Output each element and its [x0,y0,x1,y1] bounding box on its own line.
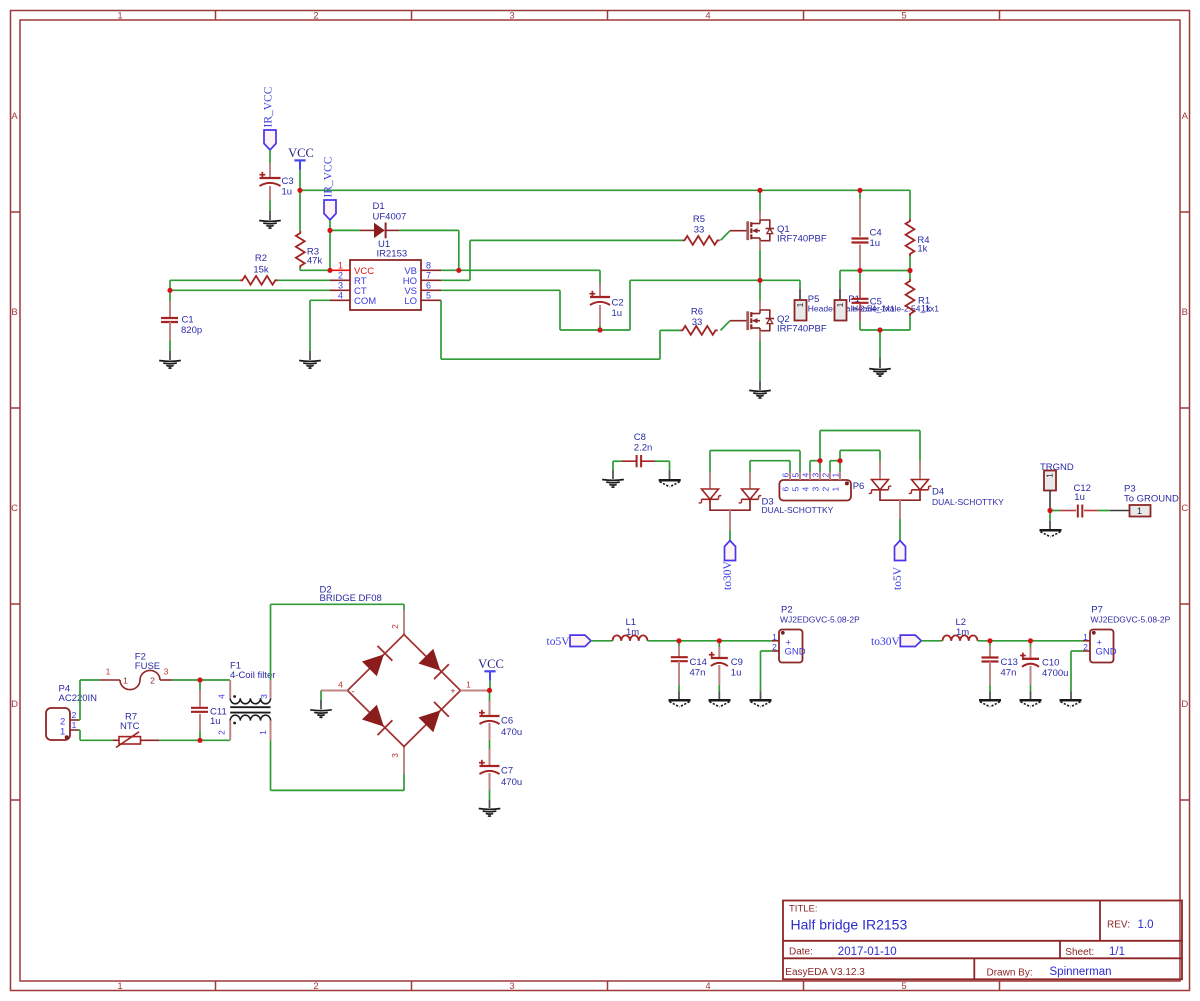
svg-text:1u: 1u [210,716,221,727]
wire C3 to ground [269,200,271,211]
wire flag to pin1 [329,220,331,270]
wire LO up [659,330,661,359]
C3 top pin [269,163,271,178]
svg-text:C: C [11,503,18,514]
fuse F2 [100,679,120,681]
title block [783,901,1182,980]
svg-text:3: 3 [509,10,514,21]
wire C13 ground [989,685,991,692]
wire VB node [441,269,600,271]
svg-text:to5V: to5V [892,566,904,590]
U1 pin 4 COM [330,299,350,301]
wire C9 ground [718,685,720,692]
TPGND pin [1049,491,1051,511]
wire R3 to pin1 node [299,268,301,270]
svg-text:47n: 47n [1001,668,1017,679]
wire pin2 to pin1 [830,460,840,462]
D1 anode lead [360,229,374,231]
svg-text:1: 1 [796,302,805,307]
wire down [612,461,614,470]
svg-text:1.0: 1.0 [1138,919,1154,931]
svg-text:Spinnerman: Spinnerman [1050,966,1112,978]
wire VS bottom [560,329,600,331]
wire D3 right anode [749,461,751,472]
P6 pin1 marker [845,481,849,485]
wire VCC to node [299,170,301,190]
wire to riser [600,329,630,331]
svg-text:3: 3 [811,473,821,478]
ground stem [309,351,311,360]
ground stem [989,692,991,700]
wire VS [441,289,560,291]
svg-text:6: 6 [426,280,431,290]
diode D1 UF4007 [374,223,385,238]
svg-text:1: 1 [123,676,128,686]
junction R4 R1 [907,268,912,273]
svg-text:IRF740PBF: IRF740PBF [777,324,827,335]
wire to ground [879,330,881,358]
junction C1 node [167,288,172,293]
wire HO to R5 [470,239,682,241]
wire flag to L1 [591,640,613,642]
wire down [760,651,762,692]
wire to D1 anode [330,229,360,231]
diode D4 left [869,480,892,494]
wire diagonal to Q2 gate [721,321,731,331]
C12 left pin [1060,510,1076,512]
U1 pin 6 VS [421,289,441,291]
P6 pin 1 [839,472,841,481]
P6 pin 6 [789,472,791,481]
connector P1 [835,300,847,321]
wire C6 C7 [489,740,491,749]
Q2 source pin [759,331,761,341]
U1 pin 5 LO [421,299,441,301]
wire to C12 [1050,510,1060,512]
junction VCC node [297,188,302,193]
wire rail down to R4 [909,190,911,219]
D3 output pin [729,510,731,530]
svg-text:IR2153: IR2153 [377,249,408,260]
svg-text:REV:: REV: [1107,920,1130,931]
ground stem [678,692,680,700]
wire C2 to VS [599,326,601,331]
U1 pin 2 RT [330,279,350,281]
ground triangle (C14) [669,699,691,702]
wire to R7 [80,739,113,741]
Q2 drain pin [759,301,761,310]
C10 top pin [1030,647,1032,659]
wire LO to R6 [660,329,680,331]
wire P6 pin2 [829,461,831,472]
connector P7 [1090,630,1114,663]
svg-text:D1: D1 [373,201,385,212]
svg-text:UF4007: UF4007 [373,212,407,223]
C6 bottom pin [489,723,491,740]
wire C14 ground [678,685,680,692]
capacitor C14 [671,656,688,658]
svg-text:2: 2 [390,624,400,629]
F1 core line 2 [230,712,270,714]
wire to C14 [678,641,680,646]
svg-text:IR_VCC: IR_VCC [263,86,275,127]
svg-text:4: 4 [801,473,811,478]
junction D1 anode node [327,228,332,233]
wire rail to Q1 drain [759,190,761,211]
capacitor C13 [982,656,999,658]
svg-text:1: 1 [72,720,77,730]
ground stem [269,211,271,220]
svg-text:to30V: to30V [722,561,734,590]
svg-text:GND: GND [1096,646,1117,657]
ground stem [760,692,762,700]
svg-text:D: D [11,699,18,710]
P7 pin1 lead [1083,640,1090,642]
wire to bridge pin2 [403,604,405,610]
wire F1 pin3 up [270,604,272,680]
svg-text:1m: 1m [626,627,639,638]
ground (C8 left) [602,479,624,482]
wire R7 to C11 [159,739,200,741]
junction rail Q1 [757,188,762,193]
inductor L2 [943,635,978,640]
svg-text:Date:: Date: [789,947,813,958]
P6 pin 3 [819,472,821,481]
capacitor C5 [852,298,869,300]
U1 pin 1 VCC [330,269,350,271]
C1 top pin [169,301,171,318]
junction C11 top [197,677,202,682]
bridge diode top-right [418,649,448,679]
svg-text:C6: C6 [501,716,513,727]
capacitor C6 [479,712,485,714]
wire node to R3 [299,190,301,231]
junction rail C4 [857,188,862,193]
junction C14 [676,638,681,643]
wire P6 pin1 [839,450,841,471]
P4 pin1 marker [65,735,69,739]
svg-text:LO: LO [404,296,417,307]
wire flag to C3 [269,150,271,163]
wire to F1 [200,679,230,681]
svg-text:1: 1 [106,667,111,677]
svg-text:To GROUND: To GROUND [1124,494,1179,505]
junction U1 pin1 [327,268,332,273]
wire to P1 [839,271,841,290]
wire up [79,680,81,720]
P5 pin [799,289,801,300]
svg-text:C1: C1 [182,315,194,326]
svg-text:1u: 1u [612,308,623,319]
C11 top pin [199,690,201,707]
net flag IR_VCC (second) [324,200,336,220]
D4 left anode pin [879,461,881,480]
ground triangle (P2) [750,699,772,702]
bridge diode top-left [362,646,392,676]
svg-text:470u: 470u [501,777,522,788]
capacitor C9 [709,654,715,656]
ground stem [1030,692,1032,700]
junction C9 [717,638,722,643]
svg-text:1/1: 1/1 [1109,946,1125,958]
transistor Q2 IRF740PBF [730,310,774,331]
svg-text:2: 2 [313,10,318,21]
svg-text:to30V: to30V [871,636,900,648]
svg-text:2: 2 [821,473,831,478]
bridge pin4 lead [321,690,348,692]
wire to C5 [859,271,861,282]
U1 pin 7 HO [421,279,441,281]
resistor R4 [906,219,915,256]
svg-text:C5: C5 [870,296,882,307]
svg-text:3: 3 [811,487,821,492]
wire C10 ground [1030,685,1032,692]
svg-text:3: 3 [338,280,343,290]
wire mid rail [840,270,910,272]
ground (C3) [259,220,281,223]
ground stem [1070,692,1072,700]
svg-text:1: 1 [466,680,471,690]
C12 right pin [1084,510,1098,512]
wire loop top [271,603,405,605]
D4 right anode pin [919,461,921,480]
P7 pin2 lead [1083,650,1090,652]
P4 pin2 lead [70,719,79,721]
wire C11 bottom [199,731,201,740]
svg-text:1: 1 [117,10,122,21]
svg-text:COM: COM [354,296,376,307]
svg-text:1: 1 [117,981,122,992]
wire C8 left [613,460,622,462]
C13 bottom pin [989,662,991,686]
wire HO [441,279,470,281]
wire C1 to ground [169,340,171,351]
C6 top pin [489,701,491,716]
wire LO down [440,300,442,359]
wire C12 to P3 [1098,510,1110,512]
wire C11 top [199,680,201,690]
C2 top pin [599,283,601,297]
bridge pin2 [403,610,405,635]
svg-text:1: 1 [60,727,65,738]
resistor R5 [682,236,719,245]
wire VB to C2 [599,270,601,283]
svg-text:WJ2EDGVC-5.08-2P: WJ2EDGVC-5.08-2P [780,614,860,624]
svg-text:2: 2 [217,730,227,735]
wire D1 to VB node [399,229,459,231]
wire rail to C4 [859,190,861,199]
svg-text:7: 7 [426,270,431,280]
C11 bottom pin [199,714,201,731]
wire pin6 to D3 right [750,460,790,462]
F1 bottom coil [230,715,270,721]
wire to C13 [989,641,991,646]
wire C8 right [655,460,670,462]
U1 pin 3 CT [330,289,350,291]
net flag to30V (rail) [900,635,921,646]
wire R1 down [909,316,911,330]
svg-text:2: 2 [821,487,831,492]
wire riser up [629,280,631,330]
C1 bottom pin [169,322,171,340]
svg-text:C10: C10 [1042,658,1059,669]
bridge rectifier D2 diamond [348,635,461,747]
F1 pin1 [270,721,272,741]
ground stem [320,700,322,709]
svg-text:1: 1 [258,730,268,735]
wire P7 pin2 [1071,650,1083,652]
wire Q2 source to ground [759,341,761,381]
ground (C7) [479,808,501,811]
svg-text:EasyEDA V3.12.3: EasyEDA V3.12.3 [785,967,865,978]
D3 left anode pin [709,472,711,489]
junction VS node [757,278,762,283]
wire D4 left anode [879,450,881,461]
svg-text:470u: 470u [501,727,522,738]
C10 bottom pin [1030,666,1032,685]
filter F1 coils [229,680,231,698]
diode D3 right [739,489,762,503]
C5 bottom pin [859,303,861,321]
wire to F1 pin2 [200,739,230,741]
svg-text:1k: 1k [917,244,927,255]
svg-text:2017-01-10: 2017-01-10 [838,946,897,958]
svg-text:1: 1 [1137,506,1142,516]
wire pin5 to D3 left [710,450,800,452]
svg-text:R2: R2 [255,253,267,264]
ground stem [669,471,671,480]
svg-text:TITLE:: TITLE: [789,904,818,915]
svg-text:B: B [1182,307,1188,318]
svg-text:4700u: 4700u [1042,668,1068,679]
svg-text:IR_VCC: IR_VCC [323,156,335,197]
wire P6 pin4 [809,461,811,472]
wire down [79,730,81,740]
wire VS to Q2 drain [759,280,761,301]
resistor R2 [240,276,277,285]
wire bottom rail [860,329,910,331]
svg-text:C7: C7 [501,766,513,777]
junction C10 [1028,638,1033,643]
junction C13 [987,638,992,643]
capacitor C11 [191,707,208,709]
svg-text:DUAL-SCHOTTKY: DUAL-SCHOTTKY [932,497,1004,507]
ground (C1) [159,360,181,363]
svg-text:+: + [451,686,456,696]
svg-text:2: 2 [338,270,343,280]
capacitor C3 [260,174,266,176]
C14 top pin [678,646,680,657]
svg-text:2: 2 [150,676,155,686]
svg-text:8: 8 [426,260,431,270]
net flag to30V (D3) [725,541,736,561]
svg-text:3: 3 [390,753,400,758]
wire R2 to RT [278,279,331,281]
svg-text:WJ2EDGVC-5.08-2P: WJ2EDGVC-5.08-2P [1091,614,1171,624]
svg-text:Drawn By:: Drawn By: [987,967,1033,978]
wire F1 pin1 down [270,740,272,790]
svg-text:47k: 47k [307,256,323,267]
wire to C9 [718,641,720,647]
wire down [669,461,671,470]
wire VS down [559,290,561,330]
wire to flag [899,519,901,541]
thermistor R7 NTC [119,737,141,744]
net flag to5V (rail) [570,635,591,646]
net flag IR_VCC (top) [264,130,276,150]
ground stem [612,470,614,479]
wire down to CT node [169,280,171,290]
P1 pin [839,289,841,300]
C4 bottom pin [859,245,861,271]
ground triangle (C9) [709,699,731,702]
svg-text:47n: 47n [690,668,706,679]
svg-text:R6: R6 [691,307,703,318]
svg-text:2: 2 [313,981,318,992]
F1 core line 1 [230,706,270,708]
U1 pin 8 VB [421,269,441,271]
P2 pin1 marker [781,631,785,635]
wire to R1 [909,271,911,279]
Q1 drain pin [759,211,761,220]
wire P6 pin3 [819,431,821,472]
ground triangle (C13) [979,699,1001,702]
wire C7 ground [489,790,491,800]
svg-text:33: 33 [692,317,703,328]
Q1 source pin [759,241,761,250]
svg-text:1: 1 [772,632,777,642]
junction C2 bottom [597,327,602,332]
svg-text:D: D [1181,699,1188,710]
capacitor C4 [852,237,869,239]
wire P6 pin5 [799,451,801,472]
svg-text:C4: C4 [870,228,882,239]
F1 pin2 [229,721,231,741]
junction VCC bridge [487,688,492,693]
frame ticks [215,11,217,21]
wire D3 left anode [709,451,711,473]
capacitor C12 [1077,505,1079,518]
bridge pin3 [403,747,405,775]
svg-text:1: 1 [338,260,343,270]
junction TPGND [1047,508,1052,513]
svg-text:C9: C9 [731,657,743,668]
svg-text:1: 1 [1083,632,1088,642]
D1 cathode lead [386,229,399,231]
C8 right pin [641,460,655,462]
P2 pin1 lead [772,640,779,642]
svg-text:5: 5 [791,487,801,492]
wire COM [310,299,330,301]
wire Q1 source to VS node [759,250,761,280]
wire F2 to C11 [172,679,200,681]
connector P3 [1130,505,1151,517]
svg-text:1: 1 [1046,473,1055,478]
svg-text:820p: 820p [181,325,202,336]
svg-text:3: 3 [509,981,514,992]
P6 pin 2 [829,472,831,481]
D3 right anode pin [749,472,751,489]
svg-text:1u: 1u [1074,492,1085,503]
svg-text:P6: P6 [853,481,865,492]
svg-text:1u: 1u [870,238,881,249]
P4 pin1 lead [70,729,79,731]
connector TPGND [1044,471,1056,491]
inductor L1 [613,635,648,640]
C5 top pin [859,281,861,299]
wire COM down [309,300,311,351]
svg-text:1: 1 [831,473,841,478]
